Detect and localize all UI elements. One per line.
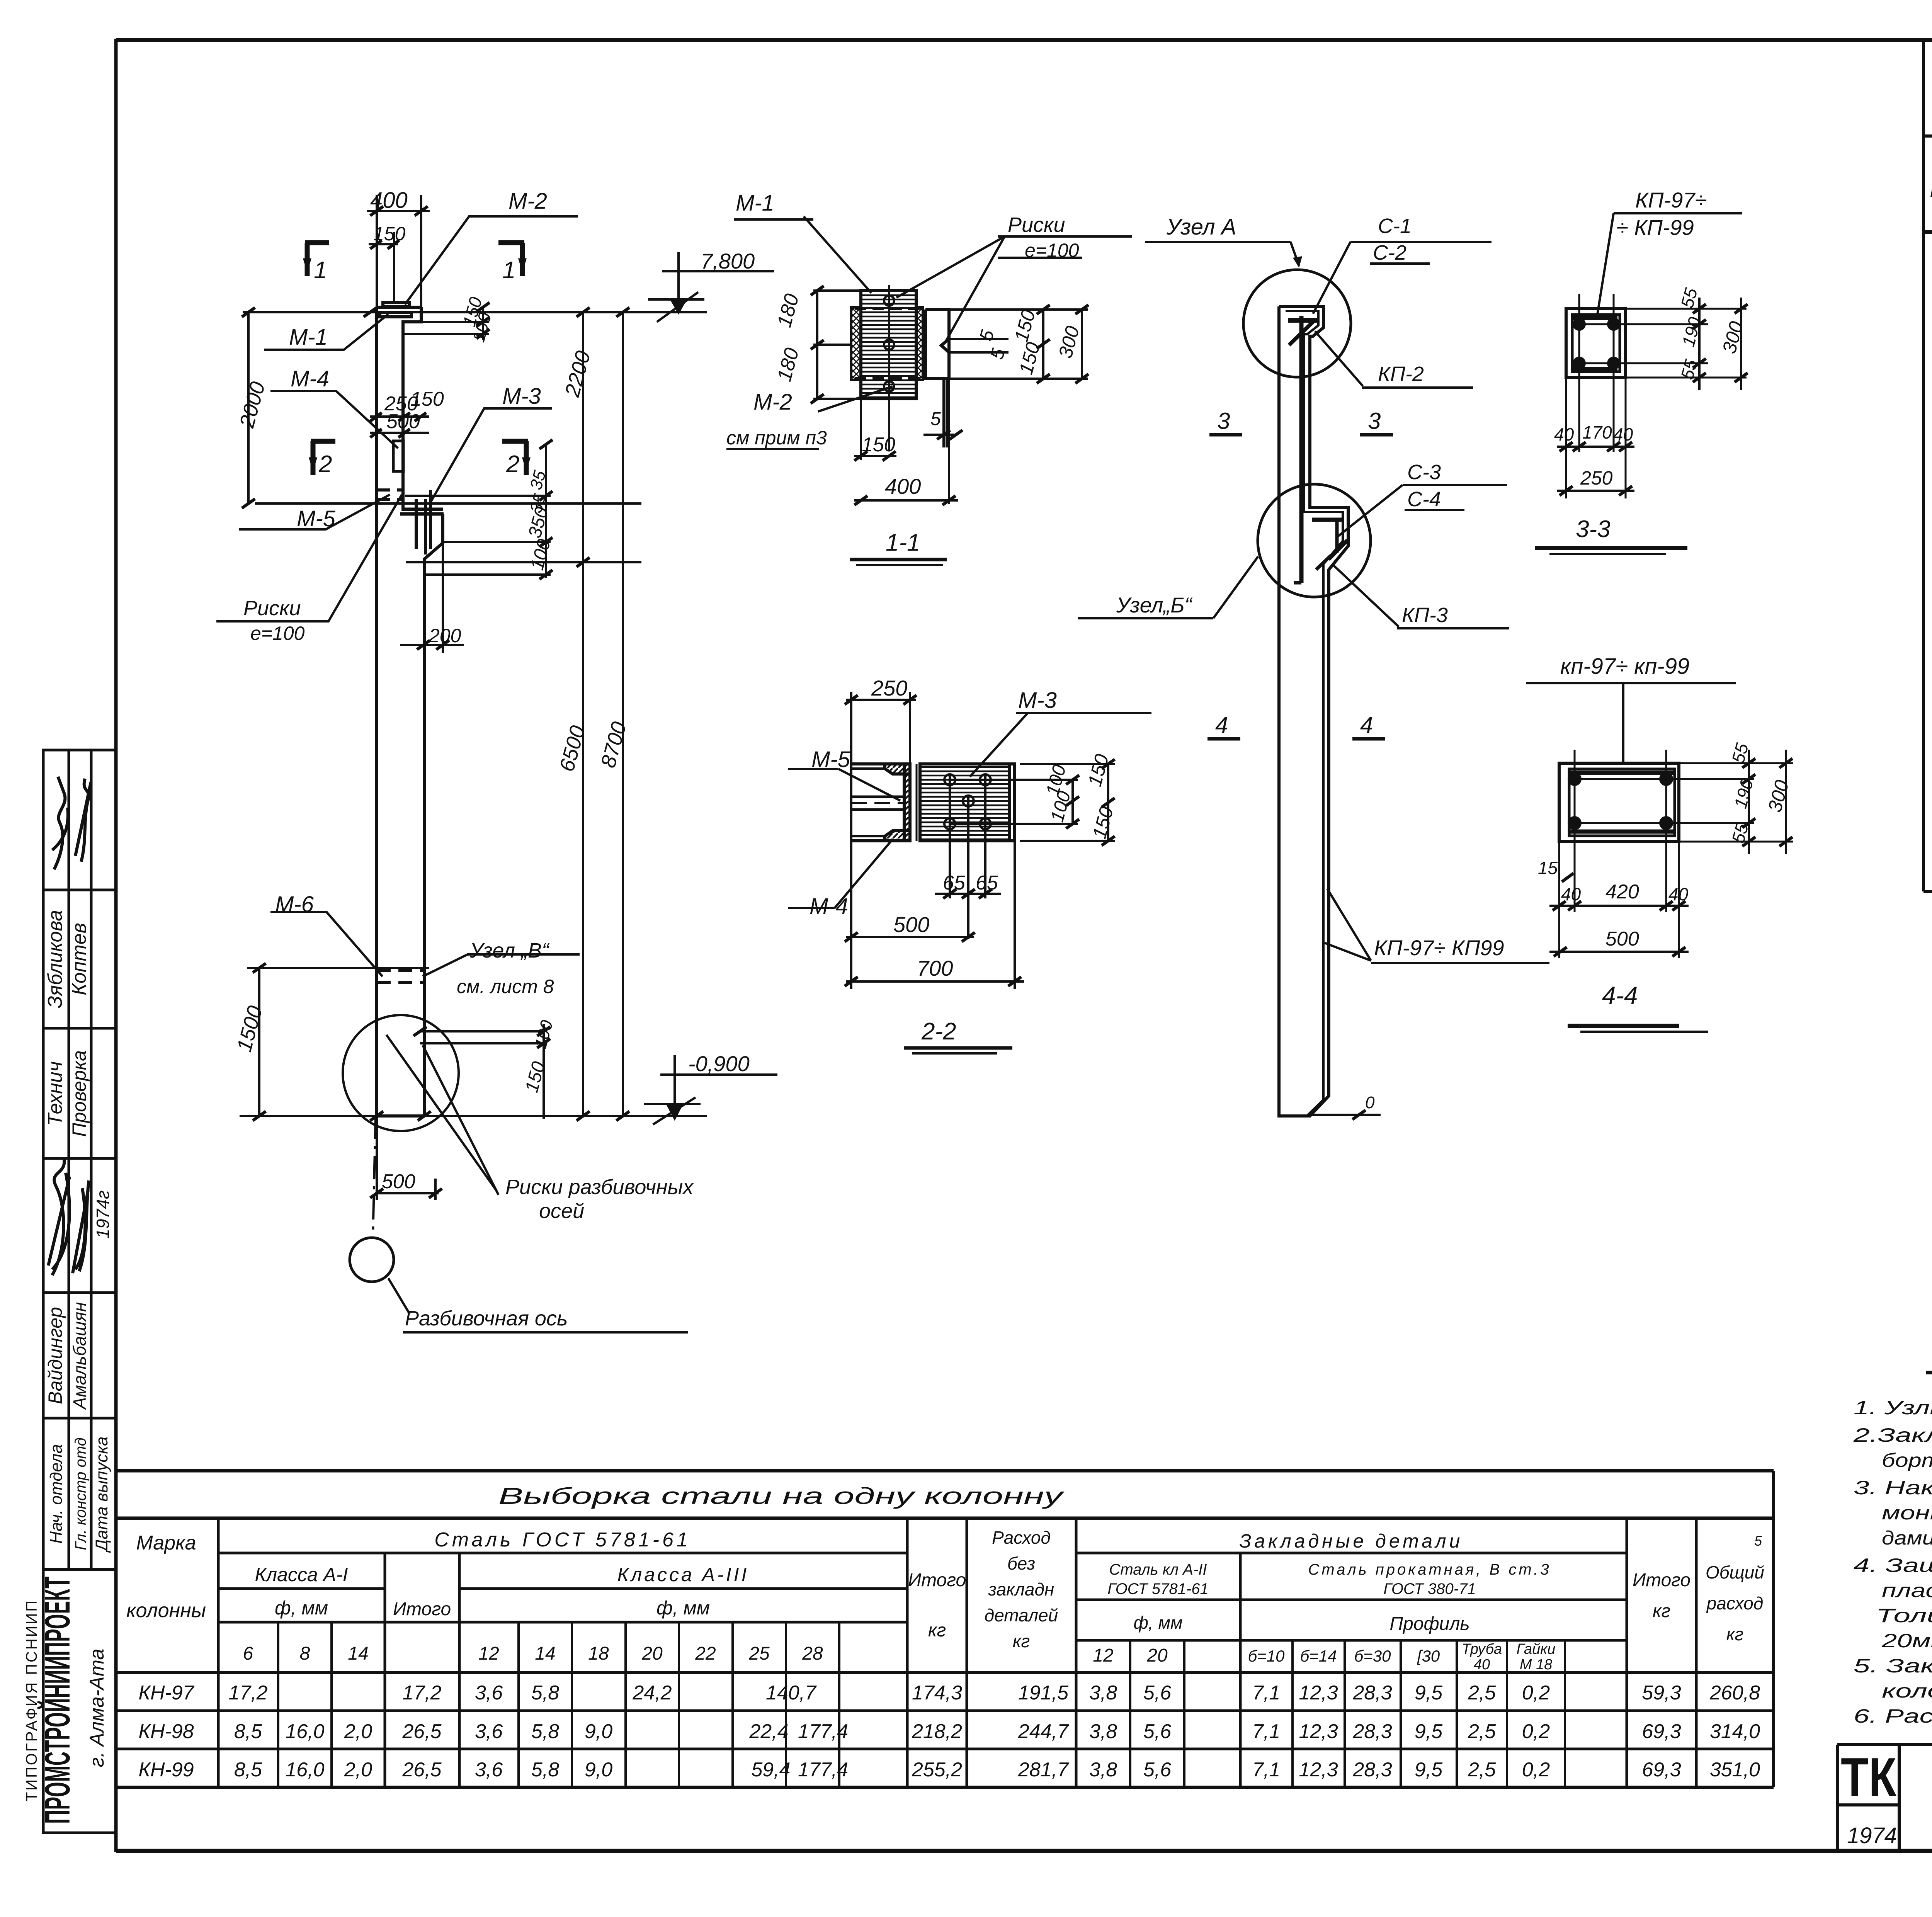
svg-text:8: 8 xyxy=(300,1643,310,1664)
outer outline xyxy=(1279,306,1348,1116)
svg-text:Сталь ГОСТ 5781-61: Сталь ГОСТ 5781-61 xyxy=(434,1529,691,1551)
dashed rows xyxy=(855,308,923,379)
svg-text:40: 40 xyxy=(1668,884,1689,904)
column top edge xyxy=(377,306,421,309)
dims 2-2 xyxy=(846,692,1115,989)
svg-text:3,6: 3,6 xyxy=(475,1759,503,1781)
svg-text:Сталь прокатная, В ст.3: Сталь прокатная, В ст.3 xyxy=(1308,1561,1551,1578)
svg-text:ТК: ТК xyxy=(1841,1747,1896,1808)
dim 400 top xyxy=(367,210,430,212)
svg-text:ф, мм: ф, мм xyxy=(1133,1613,1182,1633)
svg-text:8,5: 8,5 xyxy=(234,1720,262,1743)
svg-text:8,5: 8,5 xyxy=(234,1759,262,1781)
svg-text:5: 5 xyxy=(1754,1533,1762,1549)
svg-text:Узел„Б“: Узел„Б“ xyxy=(1116,593,1193,617)
specification table xyxy=(1923,40,1932,954)
svg-text:7,1: 7,1 xyxy=(1252,1682,1280,1704)
flange edges xyxy=(851,769,885,836)
svg-text:2: 2 xyxy=(318,451,332,478)
svg-text:М-5: М-5 xyxy=(297,506,336,531)
svg-text:КП-3: КП-3 xyxy=(1402,604,1448,627)
svg-text:1. Узлы А и Б см. на листах: 1. Узлы А и Б см. на листах 41, 42 серии… xyxy=(1854,1397,1932,1419)
svg-text:20мм. (считая от поперечной: 20мм. (считая от поперечной арматуры.). xyxy=(1881,1630,1932,1652)
svg-text:40: 40 xyxy=(1613,424,1633,444)
svg-text:Гл. констр отд: Гл. констр отд xyxy=(72,1437,89,1550)
section 2 level line xyxy=(255,502,641,505)
svg-text:[30: [30 xyxy=(1417,1647,1440,1665)
svg-text:Амальбашян: Амальбашян xyxy=(70,1302,90,1410)
svg-text:кг: кг xyxy=(1726,1624,1743,1644)
svg-text:5,8: 5,8 xyxy=(531,1759,559,1781)
gap line xyxy=(916,764,918,841)
svg-text:12,3: 12,3 xyxy=(1299,1682,1338,1704)
svg-text:Класса А-III: Класса А-III xyxy=(617,1564,749,1585)
svg-text:÷ КП-99: ÷ КП-99 xyxy=(1616,215,1694,240)
svg-text:М-1: М-1 xyxy=(736,191,774,216)
svg-text:4. Защитные слои бетона дол: 4. Защитные слои бетона должны обеспечив… xyxy=(1854,1555,1932,1576)
svg-text:24,2: 24,2 xyxy=(632,1682,672,1704)
svg-text:65: 65 xyxy=(976,872,998,894)
M-5 rod dashed xyxy=(851,797,904,810)
dim 1500 line xyxy=(258,968,260,1116)
svg-text:2,5: 2,5 xyxy=(1468,1682,1496,1704)
svg-text:Разбивочная ось: Разбивочная ось xyxy=(405,1307,568,1330)
svg-text:Вайдингер: Вайдингер xyxy=(44,1307,66,1404)
svg-text:Профиль: Профиль xyxy=(1389,1614,1469,1634)
bottom level line xyxy=(240,1115,707,1117)
leader axis label xyxy=(388,1278,410,1314)
C-3 C-4 labels xyxy=(1407,461,1441,511)
svg-text:Итого: Итого xyxy=(1633,1570,1690,1590)
svg-text:М-4: М-4 xyxy=(291,366,329,391)
svg-text:7,1: 7,1 xyxy=(1252,1759,1280,1781)
section mark 1 left xyxy=(304,243,329,276)
svg-text:5,8: 5,8 xyxy=(531,1682,559,1704)
svg-text:40: 40 xyxy=(1474,1657,1490,1673)
left crosshatch strip xyxy=(851,307,861,380)
svg-text:14: 14 xyxy=(535,1643,555,1664)
svg-text:2: 2 xyxy=(506,451,519,478)
svg-text:Проверка: Проверка xyxy=(68,1050,90,1137)
dims section 1-1 xyxy=(813,291,1088,504)
svg-text:12,3: 12,3 xyxy=(1299,1759,1338,1781)
node V level line xyxy=(247,967,429,969)
svg-text:5: 5 xyxy=(930,409,941,429)
svg-text:26,5: 26,5 xyxy=(402,1759,442,1781)
svg-text:1: 1 xyxy=(502,257,515,284)
dim 2200-6500 line xyxy=(582,312,584,1116)
svg-text:3: 3 xyxy=(1217,408,1230,434)
leader M-2 xyxy=(405,216,578,304)
svg-text:20: 20 xyxy=(641,1643,663,1664)
label KP-97 KP-99 top xyxy=(1616,188,1707,240)
bottom flange hatched xyxy=(885,831,910,841)
svg-text:500: 500 xyxy=(382,1170,415,1193)
svg-text:без: без xyxy=(1007,1553,1035,1573)
svg-text:7,1: 7,1 xyxy=(1252,1720,1280,1743)
svg-text:5,8: 5,8 xyxy=(531,1720,559,1743)
leader M-6 xyxy=(270,912,383,976)
svg-text:17,2: 17,2 xyxy=(402,1682,441,1704)
svg-text:69,3: 69,3 xyxy=(1642,1720,1681,1743)
svg-text:17,2: 17,2 xyxy=(228,1682,267,1704)
svg-text:200: 200 xyxy=(429,625,461,646)
step extension lines and 150/100 dims xyxy=(421,321,489,323)
svg-text:28: 28 xyxy=(802,1643,823,1664)
section mark 2 left xyxy=(310,441,335,475)
console bottom level line xyxy=(406,561,641,563)
svg-text:40: 40 xyxy=(1561,884,1581,904)
svg-text:М-2: М-2 xyxy=(509,189,547,214)
column side view (uzel A/B) xyxy=(1279,306,1348,1116)
svg-text:КП-2: КП-2 xyxy=(1378,362,1424,386)
svg-text:б=10: б=10 xyxy=(1248,1647,1285,1665)
svg-text:4: 4 xyxy=(1215,712,1228,738)
dim 200 bottom of console xyxy=(400,644,464,646)
svg-text:250: 250 xyxy=(871,676,907,700)
svg-text:16,0: 16,0 xyxy=(285,1759,324,1781)
leaders 1-1 xyxy=(726,216,1132,565)
console plate M-3 xyxy=(400,509,444,514)
svg-text:400: 400 xyxy=(885,474,921,498)
left stamp block xyxy=(43,750,116,1833)
svg-text:Узел „В“: Узел „В“ xyxy=(469,939,550,962)
svg-text:5,6: 5,6 xyxy=(1143,1720,1171,1743)
svg-text:6. Расход стали дан без у: 6. Расход стали дан без учета отходов пр… xyxy=(1854,1705,1932,1727)
steel selection table xyxy=(116,1471,1774,1787)
svg-text:3-3: 3-3 xyxy=(1576,516,1611,543)
svg-text:Марка: Марка xyxy=(136,1532,196,1554)
section 3-3 detail xyxy=(1566,294,1708,498)
svg-text:400: 400 xyxy=(370,188,408,213)
svg-text:Итого: Итого xyxy=(393,1599,451,1619)
svg-text:кг: кг xyxy=(928,1620,946,1641)
right body edge xyxy=(1010,764,1015,841)
svg-text:М-3: М-3 xyxy=(1018,688,1057,713)
institute name vertical xyxy=(23,1577,108,1824)
svg-text:Гайки: Гайки xyxy=(1517,1641,1556,1657)
spec table headers xyxy=(1930,148,1932,225)
svg-text:16,0: 16,0 xyxy=(285,1720,324,1743)
svg-text:Коптев: Коптев xyxy=(68,923,90,995)
svg-text:ГОСТ 5781-61: ГОСТ 5781-61 xyxy=(1107,1580,1208,1597)
svg-text:С-3: С-3 xyxy=(1407,461,1441,484)
svg-text:Риски: Риски xyxy=(1008,213,1065,236)
svg-text:колонны из формы, их устано: колонны из формы, их установку см. на ли… xyxy=(1882,1680,1932,1702)
leader M-5 xyxy=(239,495,390,529)
svg-text:ф, мм: ф, мм xyxy=(656,1597,710,1619)
section 2-2 detail xyxy=(851,764,1015,841)
svg-text:осей: осей xyxy=(539,1199,584,1223)
M-1 / M-2 cap plates xyxy=(383,303,409,306)
dashed marks node V xyxy=(377,971,423,982)
dashed marks mid column xyxy=(377,490,403,499)
steel table data rows xyxy=(138,1682,1760,1781)
top rebar hook diagonal xyxy=(1289,320,1315,345)
svg-text:Расход: Расход xyxy=(992,1527,1051,1548)
svg-text:Узел А: Узел А xyxy=(1166,214,1236,240)
svg-text:ТИПОГРАФИЯ ПСНИИП: ТИПОГРАФИЯ ПСНИИП xyxy=(23,1599,40,1801)
leader riski xyxy=(216,495,402,621)
svg-text:3,8: 3,8 xyxy=(1089,1720,1117,1743)
svg-text:ПРОМСТРОЙНИИПРОЕКТ: ПРОМСТРОЙНИИПРОЕКТ xyxy=(37,1577,77,1824)
svg-text:1974г: 1974г xyxy=(93,1190,113,1238)
labels 2-2 xyxy=(810,676,1057,1045)
svg-text:Общий: Общий xyxy=(1706,1562,1764,1582)
svg-text:М-2: М-2 xyxy=(753,390,792,415)
svg-text:2,0: 2,0 xyxy=(344,1720,372,1743)
svg-text:20: 20 xyxy=(1146,1645,1168,1666)
svg-text:М-6: М-6 xyxy=(275,892,314,917)
svg-text:г. Алма-Ата: г. Алма-Ата xyxy=(86,1649,108,1767)
svg-text:28,3: 28,3 xyxy=(1352,1682,1392,1704)
column front view xyxy=(377,303,444,1116)
svg-text:150: 150 xyxy=(373,223,406,245)
svg-text:1974: 1974 xyxy=(1847,1823,1897,1848)
svg-text:174,3: 174,3 xyxy=(912,1682,962,1704)
anchor bolts at console xyxy=(416,490,430,555)
dims 3-3 xyxy=(1557,298,1747,491)
svg-text:дами типа Э-42 ГОСТ 9467-60,: дами типа Э-42 ГОСТ 9467-60, hш= 8мм. xyxy=(1882,1527,1932,1549)
inner formwork line xyxy=(1286,311,1343,1116)
svg-text:С-4: С-4 xyxy=(1407,488,1441,511)
svg-text:кп-97÷ кп-99: кп-97÷ кп-99 xyxy=(1560,654,1689,679)
svg-text:2,5: 2,5 xyxy=(1468,1759,1496,1781)
section mark 1 right xyxy=(498,243,526,276)
svg-text:12: 12 xyxy=(1093,1645,1113,1666)
svg-text:2,0: 2,0 xyxy=(344,1759,372,1781)
svg-text:деталей: деталей xyxy=(985,1605,1058,1625)
svg-text:М 18: М 18 xyxy=(1520,1657,1552,1673)
svg-text:255,2: 255,2 xyxy=(912,1759,962,1781)
svg-text:7,800: 7,800 xyxy=(701,249,755,273)
riski circle xyxy=(343,1015,459,1131)
svg-text:59,4: 59,4 xyxy=(751,1759,790,1781)
dimension network left view xyxy=(240,195,707,1200)
web hatched xyxy=(904,764,910,841)
svg-text:Технич: Технич xyxy=(44,1061,66,1126)
rebar dots 4-4 xyxy=(1568,772,1673,830)
rebar hook end xyxy=(1294,581,1301,585)
leader M-4 xyxy=(270,391,398,448)
svg-text:250: 250 xyxy=(1580,467,1613,489)
svg-text:65: 65 xyxy=(943,872,966,894)
svg-text:5,6: 5,6 xyxy=(1143,1682,1171,1704)
svg-text:351,0: 351,0 xyxy=(1710,1759,1760,1781)
top level line xyxy=(243,311,707,313)
svg-text:3,8: 3,8 xyxy=(1089,1759,1117,1781)
plate M-1 hatched xyxy=(861,291,916,399)
svg-text:15: 15 xyxy=(1538,858,1558,878)
dim 8700 line xyxy=(622,312,624,1116)
svg-text:6: 6 xyxy=(243,1643,253,1664)
plate M-3 hatched xyxy=(920,764,1010,841)
TK logo xyxy=(1841,1747,1897,1848)
svg-text:177,4: 177,4 xyxy=(798,1720,848,1743)
channel M-5 outline xyxy=(851,764,910,841)
svg-text:кг: кг xyxy=(1653,1601,1670,1621)
leader node V xyxy=(423,954,580,976)
dim 500 bottom xyxy=(375,1192,439,1194)
rebar dots 3-3 xyxy=(1573,318,1620,370)
svg-text:420: 420 xyxy=(1605,881,1639,903)
svg-text:9,0: 9,0 xyxy=(585,1759,612,1781)
svg-text:500: 500 xyxy=(1605,928,1639,950)
main rebar vertical xyxy=(1299,316,1304,583)
svg-text:2,5: 2,5 xyxy=(1468,1720,1496,1743)
section 4-4 detail xyxy=(1559,750,1754,958)
right crosshatch strip xyxy=(916,307,923,380)
svg-text:9,0: 9,0 xyxy=(585,1720,612,1743)
svg-text:12: 12 xyxy=(478,1643,499,1664)
svg-text:КН-98: КН-98 xyxy=(138,1720,194,1743)
svg-text:177,4: 177,4 xyxy=(798,1759,848,1781)
svg-text:5. Закладные детали М-5 и М: 5. Закладные детали М-5 и М-6 служат для… xyxy=(1854,1655,1932,1677)
svg-text:см. лист 8: см. лист 8 xyxy=(457,976,554,997)
svg-text:69,3: 69,3 xyxy=(1642,1759,1681,1781)
section mark 2 right xyxy=(502,441,530,475)
dim 2000 line xyxy=(247,312,250,503)
riski wedge notch xyxy=(941,339,949,352)
svg-text:244,7: 244,7 xyxy=(1018,1720,1069,1743)
leader M-3 xyxy=(430,408,552,502)
svg-text:140,7: 140,7 xyxy=(766,1682,817,1704)
svg-text:М-1: М-1 xyxy=(289,325,328,350)
svg-text:28,3: 28,3 xyxy=(1352,1720,1392,1743)
labels and dim texts of front view xyxy=(243,188,755,1330)
svg-text:см прим п3: см прим п3 xyxy=(726,427,827,449)
uzel B circle xyxy=(1258,484,1371,597)
svg-text:Закладные детали: Закладные детали xyxy=(1240,1530,1463,1552)
svg-text:3: 3 xyxy=(1368,408,1381,434)
svg-text:9,5: 9,5 xyxy=(1415,1682,1443,1704)
svg-text:3,6: 3,6 xyxy=(475,1682,503,1704)
dim 150 top xyxy=(369,243,398,245)
svg-text:Итого: Итого xyxy=(908,1570,966,1590)
underline axis label xyxy=(403,1331,688,1334)
ticks 1-1 xyxy=(811,286,1088,505)
axis dash-dot xyxy=(373,1116,376,1238)
riski dims bottom xyxy=(420,1030,544,1032)
svg-text:59,3: 59,3 xyxy=(1642,1682,1681,1704)
steel table digit headers xyxy=(243,1641,1556,1673)
svg-text:4-4: 4-4 xyxy=(1602,981,1638,1009)
leaders 2-2 xyxy=(788,713,1151,1053)
axis circle xyxy=(350,1238,394,1282)
M-4 bracket xyxy=(393,441,403,471)
title block xyxy=(1837,1745,1932,1851)
svg-text:1: 1 xyxy=(314,257,327,284)
svg-text:Риски разбивочных: Риски разбивочных xyxy=(505,1175,694,1199)
svg-text:закладн: закладн xyxy=(988,1579,1054,1599)
dim ticks left view xyxy=(242,206,629,1198)
dim 35 350 100 right xyxy=(545,444,547,578)
svg-text:ГОСТ 380-71: ГОСТ 380-71 xyxy=(1383,1580,1476,1597)
svg-text:е=100: е=100 xyxy=(250,623,305,644)
svg-text:КП-97÷: КП-97÷ xyxy=(1635,188,1707,212)
svg-text:22: 22 xyxy=(695,1643,716,1664)
uzel A label xyxy=(1166,214,1236,240)
svg-text:0,2: 0,2 xyxy=(1522,1759,1550,1781)
svg-text:ф, мм: ф, мм xyxy=(275,1597,328,1619)
svg-text:3. Накладную деталь м-2 пр: 3. Накладную деталь м-2 приварить к М-1 … xyxy=(1854,1477,1932,1499)
stamp rotated labels xyxy=(44,910,113,1553)
svg-text:М-3: М-3 xyxy=(502,384,541,409)
svg-text:0: 0 xyxy=(1365,1093,1375,1112)
column right edge top segment xyxy=(403,307,421,509)
column edge right part xyxy=(925,310,949,379)
thin stem below xyxy=(944,379,947,447)
svg-text:260,8: 260,8 xyxy=(1709,1682,1760,1704)
centerline xyxy=(888,285,890,450)
svg-text:500: 500 xyxy=(386,410,420,433)
section marks 4 4 xyxy=(1215,712,1373,738)
leader M-1 xyxy=(264,314,388,350)
dim 500 (M-4 level) xyxy=(370,432,429,434)
svg-text:Зябликова: Зябликова xyxy=(44,910,66,1008)
svg-text:КН-97: КН-97 xyxy=(138,1682,194,1704)
ticks 2-2 xyxy=(845,695,1115,986)
svg-text:40: 40 xyxy=(1554,424,1574,444)
C-1 C-2 labels xyxy=(1373,214,1412,264)
svg-text:монтажом колонны. Сварку пр: монтажом колонны. Сварку производить эле… xyxy=(1882,1502,1932,1524)
svg-text:9,5: 9,5 xyxy=(1415,1759,1443,1781)
svg-text:5,6: 5,6 xyxy=(1143,1759,1171,1781)
svg-text:1-1: 1-1 xyxy=(886,529,920,556)
svg-text:28,3: 28,3 xyxy=(1352,1759,1392,1781)
svg-text:2-2: 2-2 xyxy=(921,1018,956,1045)
svg-text:22,4: 22,4 xyxy=(749,1720,788,1743)
svg-text:281,7: 281,7 xyxy=(1018,1759,1069,1781)
svg-text:12,3: 12,3 xyxy=(1299,1720,1338,1743)
svg-text:9,5: 9,5 xyxy=(1415,1720,1443,1743)
leader lines component labels xyxy=(216,216,580,1314)
svg-text:700: 700 xyxy=(917,956,953,980)
svg-text:3,8: 3,8 xyxy=(1089,1682,1117,1704)
section 1-1 detail xyxy=(851,285,949,450)
section marks 3 3 xyxy=(1217,408,1381,434)
svg-text:191,5: 191,5 xyxy=(1018,1682,1069,1704)
top flange hatched xyxy=(885,764,910,774)
steel table titles xyxy=(126,1483,1764,1651)
svg-text:Сталь кл А-II: Сталь кл А-II xyxy=(1109,1561,1207,1578)
svg-text:-0,900: -0,900 xyxy=(688,1051,750,1076)
uzel A circle xyxy=(1243,270,1351,377)
svg-text:Нач. отдела: Нач. отдела xyxy=(47,1444,66,1544)
svg-text:0,2: 0,2 xyxy=(1522,1682,1550,1704)
svg-text:пластмассовыми или бетонным: пластмассовыми или бетонными фиксаторами… xyxy=(1882,1580,1932,1601)
svg-text:218,2: 218,2 xyxy=(912,1720,962,1743)
svg-text:150: 150 xyxy=(410,388,444,410)
svg-text:Риски: Риски xyxy=(243,597,301,620)
svg-text:314,0: 314,0 xyxy=(1710,1720,1760,1743)
svg-text:500: 500 xyxy=(893,912,929,937)
svg-text:КН-99: КН-99 xyxy=(138,1759,194,1781)
svg-text:26,5: 26,5 xyxy=(402,1720,442,1743)
svg-text:бортам формы.: бортам формы. xyxy=(1882,1449,1932,1471)
console taper xyxy=(424,514,443,1116)
top rebar horizontal xyxy=(1288,318,1318,323)
column outline left edge xyxy=(375,307,378,1116)
svg-text:расход: расход xyxy=(1706,1593,1764,1613)
svg-text:Дата выпуска: Дата выпуска xyxy=(92,1436,111,1553)
svg-text:КП-97÷ КП99: КП-97÷ КП99 xyxy=(1374,936,1504,960)
svg-text:б=30: б=30 xyxy=(1354,1647,1391,1665)
stamp signatures xyxy=(48,777,91,1275)
riski points 1-1 xyxy=(884,296,894,391)
svg-text:150: 150 xyxy=(862,434,895,456)
svg-text:С-1: С-1 xyxy=(1378,214,1412,238)
